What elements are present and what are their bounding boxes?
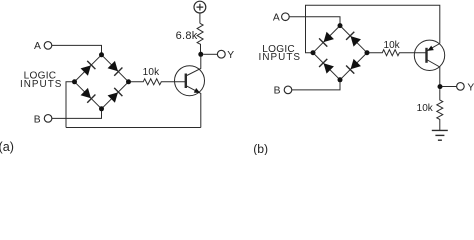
wire A to bridge top node (circuit a) <box>52 45 102 54</box>
junction bridge top node (circuit b) <box>338 23 343 28</box>
transistor Q1 NPN (circuit a) <box>175 66 205 96</box>
junction bridge right node (circuit b) <box>365 50 370 55</box>
input A (circuit b) terminal <box>282 13 290 21</box>
top rail bridge left node to emitter (circuit b) <box>306 5 440 52</box>
output Y terminal (circuit a) <box>217 50 225 58</box>
junction bridge left node (circuit a) <box>72 79 77 84</box>
diode bridge outline (circuit a) <box>75 55 129 109</box>
junction bridge bottom node (circuit a) <box>99 106 104 111</box>
wire A to bridge top node (circuit b) <box>289 17 340 26</box>
svg-text:6.8k: 6.8k <box>176 30 198 42</box>
resistor 10k body pulldown (circuit b) <box>437 89 443 130</box>
wire B to bridge bottom node (circuit a) <box>52 109 102 119</box>
diode D7 bottom-left (circuit b, anode bottom, cathode left) <box>324 63 334 73</box>
bottom rail to emitter (circuit a) <box>66 127 201 129</box>
resistor 10k body (circuit a) <box>131 79 187 85</box>
wire bridge left node to bottom rail (circuit a) <box>66 82 75 128</box>
svg-text:A: A <box>34 41 41 52</box>
svg-text:B: B <box>274 86 281 97</box>
diode D6 top-right (circuit b, anode right, cathode top) <box>351 36 361 46</box>
resistor 10k body base (circuit b) <box>369 50 426 56</box>
diode D1 top-left (circuit a, anode left, cathode top) <box>81 65 91 75</box>
svg-text:A: A <box>273 12 280 23</box>
diode D8 bottom-right (circuit b, anode right, cathode bottom) <box>351 59 361 69</box>
svg-text:INPUTS: INPUTS <box>259 52 302 63</box>
junction bridge bottom node (circuit b) <box>338 77 343 82</box>
svg-text:10k: 10k <box>417 103 434 114</box>
svg-text:10k: 10k <box>384 40 401 51</box>
junction bridge right node (circuit a) <box>126 79 131 84</box>
input B (circuit b) terminal <box>284 86 292 94</box>
transistor Q2 PNP (circuit b) <box>414 40 444 70</box>
junction bridge left node (circuit b) <box>311 50 316 55</box>
output Y terminal (circuit b) <box>457 83 465 91</box>
svg-text:(b): (b) <box>253 142 268 155</box>
diode bridge outline (circuit b) <box>313 26 367 80</box>
input B (circuit a) terminal <box>44 115 52 123</box>
diode D5 top-left (circuit b, anode top, cathode left) <box>324 32 334 42</box>
supply + terminal (circuit a) <box>194 1 206 13</box>
wire to output Y (circuit a) <box>203 53 217 55</box>
wire to output Y (circuit b) <box>443 86 457 88</box>
junction emitter output node (circuit b) <box>438 84 443 89</box>
svg-text:B: B <box>34 114 41 125</box>
svg-text:Y: Y <box>467 82 474 93</box>
resistor 6.8k body (circuit a) <box>197 23 203 54</box>
svg-text:Y: Y <box>227 50 234 61</box>
input A (circuit a) terminal <box>44 42 52 50</box>
junction collector node (circuit a) <box>198 52 203 57</box>
svg-text:INPUTS: INPUTS <box>20 79 63 90</box>
ground symbol (circuit b) <box>432 129 448 131</box>
wire B to bridge bottom node (circuit b) <box>292 80 340 90</box>
diode D2 top-right (circuit a, anode top, cathode right) <box>108 61 118 71</box>
svg-text:10k: 10k <box>143 67 161 78</box>
diode D4 bottom-right (circuit a, anode bottom, cathode right) <box>108 92 118 102</box>
diode D3 bottom-left (circuit a, anode left, cathode bottom) <box>81 88 91 98</box>
junction bridge top node (circuit a) <box>99 52 104 57</box>
svg-text:(a): (a) <box>0 140 14 154</box>
wire supply to resistor 6.8k (circuit a) <box>199 13 201 23</box>
